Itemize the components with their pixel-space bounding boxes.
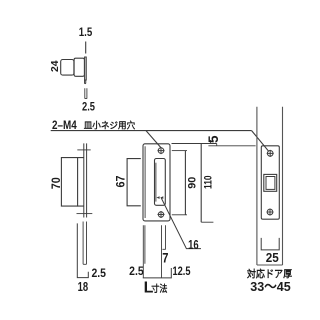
- faceplate bar (edge-on): [85, 57, 87, 80]
- top screw axis tick: [77, 149, 90, 151]
- latch opening outer square: [264, 174, 277, 191]
- door edge right line: [282, 107, 284, 265]
- dim label 1.5: [79, 25, 93, 39]
- dim 5 tick: [209, 140, 211, 144]
- leader underline: [51, 130, 252, 132]
- svg-text:2–M4: 2–M4: [52, 118, 77, 132]
- dim label 2.5: [129, 264, 144, 278]
- svg-text:25: 25: [266, 251, 279, 265]
- dim label 2.5: [82, 100, 95, 114]
- svg-text:33〜45: 33〜45: [250, 279, 290, 294]
- dim bracket 25: [261, 238, 279, 250]
- dim label 25: [266, 251, 279, 265]
- bottom screw hole: [158, 211, 165, 218]
- plate left edge extensions: [143, 225, 145, 278]
- faceplate (edge view): [84, 143, 87, 217]
- svg-text:18: 18: [78, 279, 89, 294]
- leader branch to center plate hole: [146, 131, 161, 148]
- plate outline: [143, 144, 170, 221]
- door edge left line: [256, 107, 258, 265]
- box body left rect: [61, 60, 74, 76]
- label 33〜45: [250, 279, 290, 294]
- dim label 16: [188, 238, 199, 252]
- svg-text:2.5: 2.5: [129, 264, 144, 278]
- dim label 12.5: [173, 264, 191, 278]
- svg-text:皿小ネジ用穴: 皿小ネジ用穴: [84, 119, 136, 130]
- leader 16 line: [161, 198, 201, 249]
- dim 90 line: [184, 151, 186, 215]
- svg-text:110: 110: [202, 176, 214, 190]
- dim 90 extension bottom: [172, 214, 187, 216]
- svg-text:2.5: 2.5: [82, 100, 95, 114]
- dim label 18: [78, 279, 89, 294]
- svg-text:12.5: 12.5: [173, 264, 191, 278]
- label L寸法: [144, 279, 168, 296]
- svg-text:90: 90: [186, 177, 198, 189]
- dim label 67 (rotated): [113, 175, 127, 187]
- latch opening inner square: [266, 177, 275, 190]
- svg-text:寸法: 寸法: [151, 282, 167, 295]
- dim label 90 (rotated): [186, 177, 198, 189]
- dim bracket 70: [61, 158, 77, 207]
- svg-text:67: 67: [113, 175, 127, 187]
- top screw hole: [267, 150, 274, 157]
- extension U below (2.5 thickness): [85, 88, 87, 98]
- dim bracket 67: [127, 159, 141, 206]
- dim label 24 (rotated): [49, 60, 61, 72]
- box collar right rect: [74, 58, 84, 76]
- latch opening: [155, 159, 166, 206]
- leader 16 arrow: [156, 196, 163, 199]
- opening inner lip line: [155, 163, 157, 202]
- leader branch to right plate hole: [252, 131, 269, 152]
- svg-text:5: 5: [206, 135, 221, 143]
- dim label 110 (rotated): [202, 176, 214, 190]
- label 2-M4: [52, 118, 77, 132]
- dim 110 line: [200, 144, 202, 223]
- extension U below plate (2.5): [83, 222, 86, 265]
- dim label 7: [162, 250, 168, 266]
- svg-text:2.5: 2.5: [91, 266, 106, 280]
- dim 110 bottom hook: [201, 221, 213, 223]
- dim bracket 18: [77, 223, 88, 277]
- svg-text:24: 24: [49, 60, 61, 72]
- lock faceplate: [261, 146, 279, 219]
- dim 90 extension top: [172, 150, 187, 152]
- svg-text:1.5: 1.5: [79, 25, 93, 39]
- label 皿小ネジ用穴: [84, 119, 136, 130]
- bottom screw hole: [267, 209, 274, 216]
- L dim line with right stub: [143, 268, 172, 278]
- dim label 2.5: [91, 266, 106, 280]
- dim 5 jog: [208, 144, 255, 146]
- bottom screw axis tick: [77, 213, 93, 215]
- faceplate bottom tab: [85, 80, 86, 84]
- dim 110 extension top: [172, 143, 217, 145]
- strike box (side): [78, 158, 84, 207]
- label 対応ドア厚: [246, 268, 293, 281]
- svg-text:70: 70: [49, 177, 63, 189]
- dim label 5 (rotated): [206, 135, 221, 143]
- plate left fold line: [144, 146, 146, 218]
- dim label 70 (rotated): [49, 177, 63, 189]
- slot edge extension: [162, 225, 166, 278]
- door bottom connector: [257, 264, 283, 266]
- svg-text:16: 16: [188, 238, 199, 252]
- extension line below 1.5: [85, 42, 87, 54]
- svg-text:7: 7: [162, 250, 168, 266]
- top screw hole: [158, 147, 165, 154]
